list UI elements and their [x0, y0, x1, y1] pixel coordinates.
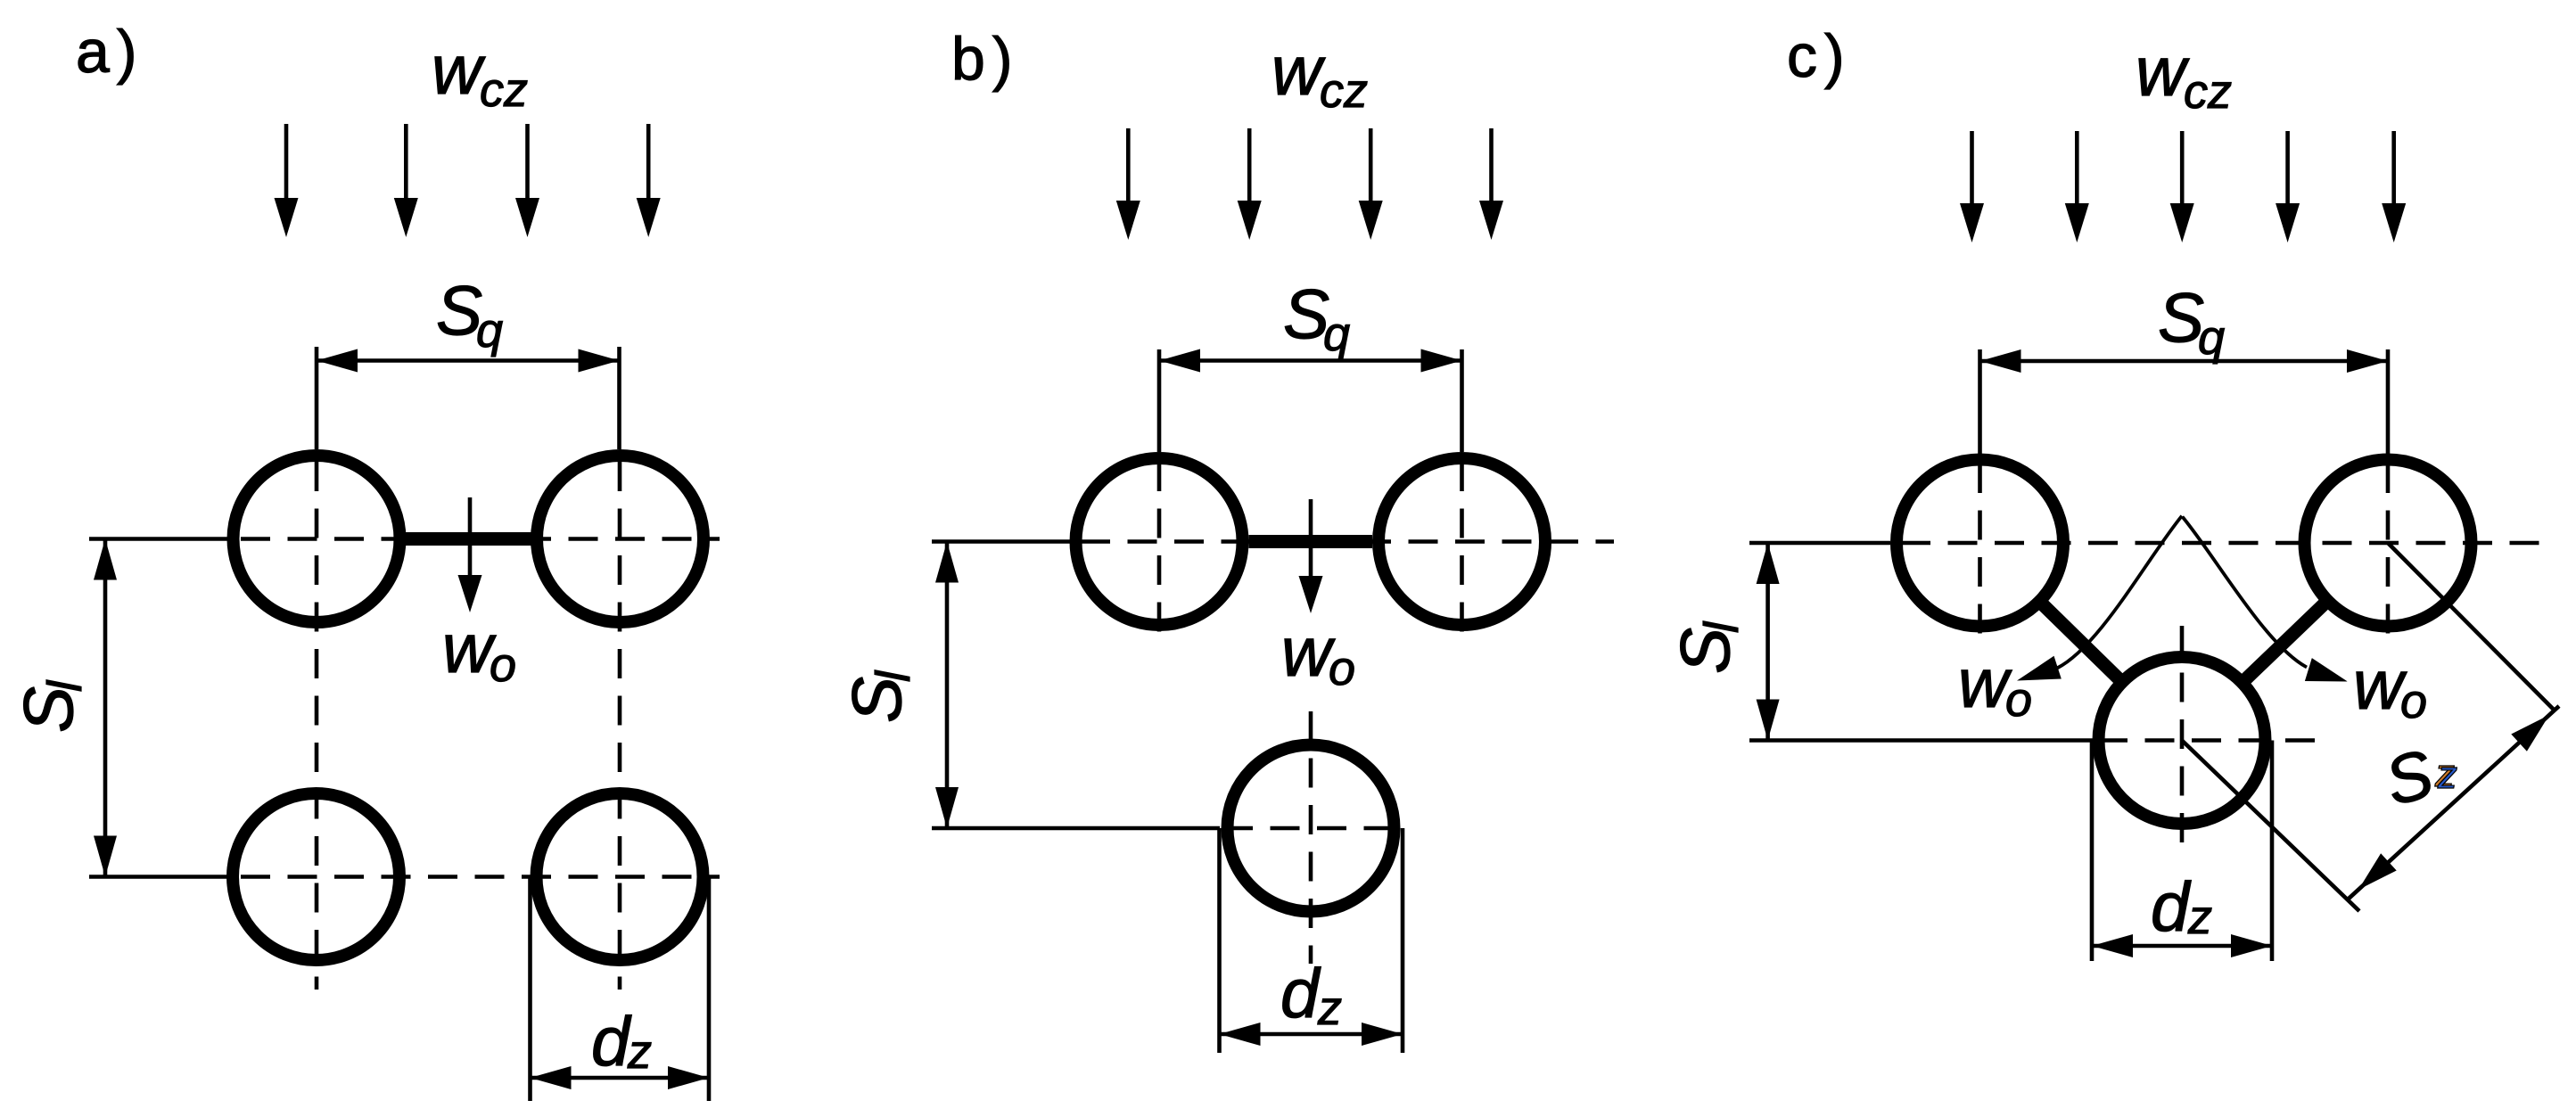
svg-text:cz: cz — [480, 63, 528, 117]
svg-text:w: w — [1281, 612, 1336, 691]
horizontal centerline top row (panel b) — [1081, 539, 1614, 544]
longitudinal pitch label S_l (panel c) — [1666, 620, 1749, 674]
flow velocity label w_cz (panel a) — [432, 30, 528, 117]
dimension d_z (panel b) — [1220, 828, 1403, 1053]
flow split arc right (panel c) — [2183, 517, 2308, 668]
dimension S_l (panel c) — [1757, 543, 1780, 741]
tube diameter label d_z (panel b) — [1280, 954, 1342, 1035]
dimension d_z (panel c) — [2092, 741, 2272, 962]
svg-text:l: l — [38, 679, 92, 692]
S_z extension line from bottom tube center (panel c) — [2182, 741, 2359, 912]
svg-text:b): b) — [951, 25, 1019, 93]
free-stream flow arrows w_cz (panel c) — [1960, 131, 2406, 242]
dimension S_l (panel b) — [935, 542, 959, 829]
svg-text:l: l — [867, 669, 920, 682]
svg-text:l: l — [1695, 620, 1749, 633]
vertical centerline right tube (panel b) — [1460, 462, 1464, 641]
tube circle row2 col1 (panel a) — [233, 793, 399, 960]
longitudinal pitch label S_l (panel b) — [837, 669, 920, 723]
svg-text:q: q — [2198, 311, 2225, 365]
svg-text:o: o — [2005, 673, 2032, 727]
diagonal pitch label S_z (panel c) — [2377, 735, 2457, 820]
horizontal centerline bottom tube (panel b) — [1223, 826, 1409, 831]
gap velocity arrow w_o (panel b) — [1299, 499, 1323, 613]
gap velocity label w_o (panel b) — [1281, 612, 1355, 695]
vertical centerline left tube (panel b) — [1157, 462, 1162, 641]
transverse pitch label S_q (panel a) — [436, 271, 503, 357]
dimension S_l (panel a) — [94, 539, 117, 877]
gap velocity label w_o right (panel c) — [2353, 645, 2427, 728]
svg-text:S: S — [9, 686, 87, 733]
dimension line S_z (panel c) — [2349, 706, 2559, 899]
svg-text:z: z — [2437, 753, 2457, 797]
svg-text:w: w — [432, 30, 486, 109]
flow split arc left arrowhead w_o (panel c) — [2017, 656, 2062, 681]
svg-text:o: o — [490, 638, 516, 692]
flow split arc left (panel c) — [2057, 516, 2182, 669]
svg-text:d: d — [1280, 954, 1321, 1032]
horizontal centerline bottom row (panel a) — [241, 875, 720, 879]
extension line bottom row left (panel b) — [932, 826, 1220, 831]
flow velocity label w_cz (panel b) — [1272, 31, 1368, 118]
tube circle row1 col1 (panel c) — [1897, 460, 2063, 627]
svg-text:cz: cz — [1320, 64, 1368, 118]
tube circle row1 col1 (panel a) — [234, 456, 400, 622]
svg-text:q: q — [476, 304, 503, 357]
diagonal gap bar right (panel c) — [2246, 604, 2324, 678]
svg-text:a): a) — [76, 18, 144, 86]
free-stream flow arrows w_cz (panel b) — [1116, 128, 1503, 240]
tube circle row1 col2 (panel c) — [2305, 460, 2472, 627]
svg-text:w: w — [1272, 31, 1326, 110]
gap velocity label w_o left (panel c) — [1958, 644, 2032, 727]
S_z extension line from right tube center (panel c) — [2388, 543, 2555, 711]
svg-text:w: w — [1958, 644, 2012, 722]
svg-text:w: w — [442, 609, 497, 687]
svg-text:w: w — [2136, 32, 2190, 111]
vertical centerline right column (panel a) — [618, 462, 622, 990]
dimension d_z (panel a) — [531, 877, 710, 1101]
svg-text:z: z — [627, 1025, 652, 1079]
minimum gap bar between tubes (panel b) — [1249, 535, 1373, 548]
flow velocity label w_cz (panel c) — [2136, 32, 2232, 119]
horizontal centerline top row (panel a) — [241, 537, 720, 541]
svg-text:z: z — [2187, 891, 2212, 944]
dimension S_q (panel b) — [1159, 349, 1462, 453]
dimension S_q (panel c) — [1980, 349, 2389, 454]
free-stream flow arrows w_cz (panel a) — [275, 124, 661, 237]
tube circle row1 col2 (panel a) — [537, 456, 704, 622]
flow split arc right arrowhead w_o (panel c) — [2305, 658, 2348, 681]
dimension S_q (panel a) — [317, 347, 620, 449]
svg-text:d: d — [2151, 867, 2192, 946]
tube circle row1 col2 (panel b) — [1379, 458, 1545, 625]
minimum gap bar between tubes (panel a) — [406, 532, 531, 546]
vertical centerline bottom tube (panel c) — [2180, 626, 2185, 847]
svg-text:w: w — [2353, 645, 2407, 724]
svg-text:q: q — [1323, 308, 1350, 361]
extension line top row left (panel c) — [1749, 541, 1890, 546]
tube circle row2 staggered (panel c) — [2099, 657, 2266, 824]
svg-text:o: o — [2400, 675, 2427, 728]
svg-text:S: S — [2377, 735, 2440, 820]
svg-text:S: S — [837, 677, 916, 723]
svg-text:d: d — [591, 1002, 632, 1080]
extension line bottom row left (panel c) — [1749, 738, 2093, 743]
gap velocity arrow w_o (panel a) — [458, 497, 482, 612]
vertical centerline right tube (panel c) — [2386, 464, 2391, 643]
longitudinal pitch label S_l (panel a) — [9, 679, 92, 733]
svg-text:cz: cz — [2184, 65, 2232, 119]
horizontal centerline bottom tube (panel c) — [2098, 738, 2321, 743]
tube diameter label d_z (panel a) — [591, 1002, 652, 1080]
svg-text:S: S — [1666, 628, 1744, 674]
diagonal gap bar left (panel c) — [2044, 605, 2119, 678]
vertical centerline left tube (panel c) — [1978, 464, 1982, 643]
gap velocity label w_o (panel a) — [442, 609, 516, 692]
transverse pitch label S_q (panel b) — [1283, 275, 1350, 361]
tube diameter label d_z (panel c) — [2151, 867, 2212, 946]
svg-text:z: z — [1317, 981, 1342, 1035]
svg-text:o: o — [1329, 642, 1355, 695]
transverse pitch label S_q (panel c) — [2158, 278, 2225, 365]
extension line bottom row left (panel a) — [89, 875, 228, 879]
vertical centerline bottom tube (panel b) — [1309, 711, 1313, 964]
extension line top row left (panel a) — [89, 537, 228, 541]
horizontal centerline top row (panel c) — [1901, 541, 2544, 546]
extension line top row left (panel b) — [932, 539, 1070, 544]
svg-text:c): c) — [1787, 22, 1852, 90]
tube circle row2 col2 (panel a) — [537, 793, 704, 960]
vertical centerline left column (panel a) — [315, 462, 319, 990]
tube circle row2 staggered (panel b) — [1228, 745, 1395, 912]
tube circle row1 col1 (panel b) — [1076, 458, 1243, 625]
